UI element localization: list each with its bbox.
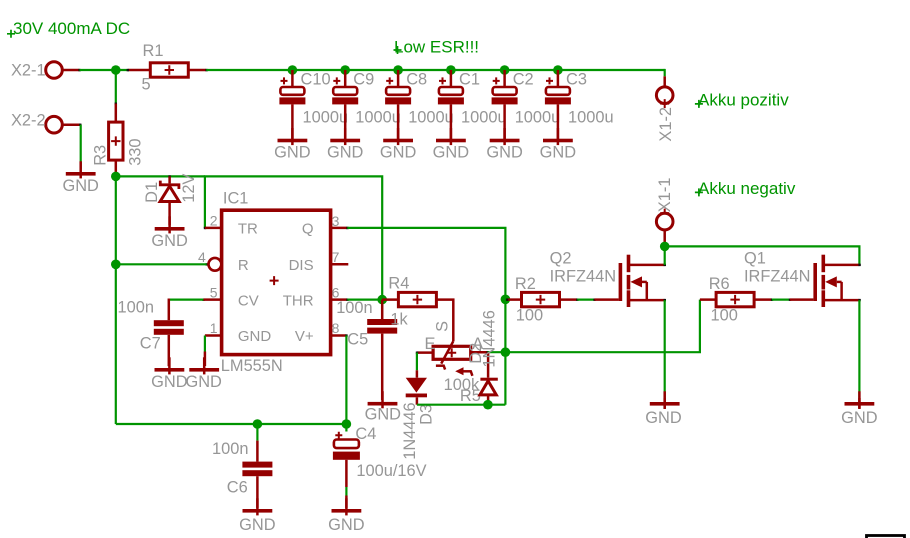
svg-text:Q2: Q2 [550,249,572,267]
wire long gate feed to R6 [505,300,700,353]
svg-text:C8: C8 [406,70,427,88]
wire bottom rail [116,423,347,425]
pin 8 (V+) [331,320,348,337]
svg-text:X2-2: X2-2 [11,112,46,130]
svg-text:C1: C1 [459,70,480,88]
svg-text:1000u: 1000u [461,109,507,127]
svg-text:C4: C4 [355,425,376,443]
wire Q node down to steering node [504,299,506,352]
svg-text:D1: D1 [143,182,161,203]
resistor R3 [92,103,145,177]
transistor Q2 IRFZ44N [550,249,666,307]
capacitor C9 [332,65,401,140]
svg-text:IC1: IC1 [223,190,249,208]
svg-text:R4: R4 [388,275,409,293]
wire X2-1 to R1 [80,69,128,71]
capacitor C3 [545,65,614,140]
wire X2-2 to ground [80,125,82,170]
svg-text:C6: C6 [227,479,248,497]
wire +30V rail [206,69,664,71]
wire CV to C7 [169,299,204,301]
wire R2 to Q2 gate [577,299,594,301]
svg-text:R3: R3 [92,145,110,166]
svg-text:D3: D3 [417,404,435,425]
svg-text:1N4446: 1N4446 [480,310,498,367]
wire rail down to R3 [115,70,117,104]
connector X2-2 [11,112,82,133]
svg-text:IRFZ44N: IRFZ44N [550,268,616,286]
svg-text:1000u: 1000u [568,109,614,127]
ground (Q2) [645,391,682,427]
wire left long vertical [115,176,117,424]
svg-text:Q: Q [302,221,314,238]
svg-text:GND: GND [274,144,311,162]
pin 3 (Q) [331,213,349,229]
node: junction Q/R2 [501,295,511,305]
svg-text:GND: GND [239,516,276,534]
svg-text:GND: GND [841,409,878,427]
svg-text:C9: C9 [353,70,374,88]
ground (C7) [151,357,188,391]
node: junction on left vertical at pin 4 [111,260,121,270]
ground (C9) [327,128,364,162]
node: junction at THR [377,295,387,305]
wire trimmer A pin [471,351,505,353]
svg-text:GND: GND [151,373,188,391]
wire trimmer E pin [416,352,434,371]
node: junction C6 [253,419,263,429]
svg-text:GND: GND [328,516,365,534]
svg-text:C7: C7 [140,334,161,352]
diode D1 (zener 12V) [143,174,198,226]
ground (D1) [151,216,188,250]
ground (C3) [540,128,577,162]
node: junction on +30V rail above R3 [111,65,121,75]
svg-text:6: 6 [332,284,340,300]
svg-text:C5: C5 [347,331,368,349]
pin 2 (TR) [204,213,222,230]
connector X2-1 [11,61,81,79]
wire drain bus X1-1 to Q1 [665,246,860,265]
transistor Q1 IRFZ44N [744,249,861,307]
diode D3 1N4446 [401,370,436,460]
ground (C4) [328,498,365,534]
svg-text:1000u: 1000u [355,109,401,127]
svg-text:GND: GND [62,177,99,195]
ground (C1) [433,128,470,162]
capacitor C1 [438,65,507,140]
svg-text:5: 5 [142,76,151,94]
svg-text:GND: GND [365,405,402,423]
ground (IC1 pin1) [185,352,222,391]
svg-text:C3: C3 [566,70,587,88]
label Low ESR!!! [394,37,480,56]
svg-text:100n: 100n [336,299,372,317]
svg-text:E: E [425,335,436,353]
svg-text:4: 4 [198,249,206,265]
node: junction below R3 [111,172,121,182]
svg-text:TR: TR [238,221,258,238]
node: junction C4 [342,419,352,429]
capacitor C7 [118,298,184,366]
svg-text:12V: 12V [180,174,198,203]
svg-text:GND: GND [433,144,470,162]
ground (C10) [274,128,311,162]
svg-text:30V 400mA DC: 30V 400mA DC [13,19,130,38]
node: junction X1-1 / drains [660,242,670,252]
svg-text:V+: V+ [295,328,314,345]
svg-text:100n: 100n [212,440,248,458]
ground (C8) [380,128,417,162]
node: junction D2 anode [483,400,493,410]
svg-text:IRFZ44N: IRFZ44N [744,268,810,286]
svg-text:C10: C10 [301,70,331,88]
wire Q2 source down to ground [664,300,666,398]
svg-text:C2: C2 [513,70,534,88]
capacitor C8 [385,65,454,140]
ground (Q1) [841,391,878,427]
svg-text:X2-1: X2-1 [11,61,46,79]
svg-text:Akku pozitiv: Akku pozitiv [698,90,789,109]
wire Q2 gate lead [593,299,618,301]
node: junction steering/A [501,347,511,357]
svg-text:GND: GND [540,144,577,162]
pin 1 (GND) [205,320,222,336]
svg-text:8: 8 [332,320,340,336]
svg-text:Q1: Q1 [744,249,766,267]
wire pin 1 to ground [204,336,206,352]
resistor R2 [506,275,579,324]
svg-text:GND: GND [327,144,364,162]
svg-text:330: 330 [127,138,145,165]
svg-text:GND: GND [486,144,523,162]
svg-text:7: 7 [332,249,340,265]
svg-text:DIS: DIS [289,257,314,274]
svg-text:100u/16V: 100u/16V [356,462,426,480]
label Akku negativ [695,179,796,198]
potentiometer R5 100k trimmer [425,321,484,405]
wire THR to junction [347,299,382,301]
wire R6 to Q1 gate [772,299,790,301]
wire Q1 gate lead [789,299,814,301]
ground (C5) [365,391,402,423]
svg-text:GND: GND [185,373,222,391]
svg-text:X1-1: X1-1 [656,178,674,213]
resistor R6 [700,275,773,324]
op-amp/timer IC1 LM555N body [221,190,331,376]
svg-text:LM555N: LM555N [221,357,283,375]
wire long vertical to pin 4 [116,263,207,265]
svg-text:1000u: 1000u [303,109,349,127]
svg-text:GND: GND [380,144,417,162]
pin 4 (R) with bubble [198,249,221,271]
svg-text:2: 2 [210,213,218,229]
connector X1-1 [656,178,674,247]
wire V+ down to bottom rail [345,336,347,425]
capacitor C10 [279,65,348,140]
svg-text:CV: CV [238,292,259,309]
capacitor C4 (100u/16V) [333,424,427,508]
svg-text:Low ESR!!!: Low ESR!!! [394,37,479,56]
svg-text:5: 5 [210,284,218,300]
wire junction to TR loop [116,175,205,177]
svg-text:THR: THR [283,292,314,309]
capacitor C2 [492,65,561,140]
svg-text:R: R [238,257,249,274]
svg-text:R6: R6 [709,275,730,293]
svg-text:3: 3 [332,213,340,229]
svg-text:1N4446: 1N4446 [401,402,419,459]
svg-text:Akku negativ: Akku negativ [698,179,796,198]
wire steering bottom net [417,352,506,405]
capacitor C6 [212,424,272,508]
label 30V 400mA DC [7,19,130,38]
svg-text:R2: R2 [515,275,536,293]
svg-text:X1-2: X1-2 [657,107,675,142]
resistor R1 [127,42,208,94]
diode D2 1N4446 [467,310,498,405]
ground (C2) [486,128,523,162]
wire Q1 source down to ground [858,300,860,398]
svg-text:100n: 100n [118,298,154,316]
svg-text:1: 1 [210,320,218,336]
pin 7 (DIS) [331,249,349,265]
pin 5 (CV) [202,284,221,301]
wire rail corner down to X1-2 [664,69,666,76]
svg-text:1k: 1k [390,310,408,328]
svg-text:GND: GND [238,328,272,345]
resistor R4 [382,275,453,342]
wire Q2 drain up to X1-1 node [664,246,666,265]
svg-text:GND: GND [151,232,188,250]
svg-text:R1: R1 [143,42,164,60]
connector X1-2 [656,76,675,141]
ground (X2-2) [62,161,99,195]
capacitor C5 [336,299,397,400]
wire TR-THR feedback loop [204,176,382,299]
label Akku pozitiv [695,90,789,109]
frame corner bottom right [867,536,905,538]
svg-text:1000u: 1000u [408,109,454,127]
svg-text:GND: GND [645,409,682,427]
wire Q output from pin 3 [347,228,505,299]
pin 6 (THR) [331,284,349,301]
svg-text:100: 100 [711,306,738,324]
svg-text:1000u: 1000u [515,109,561,127]
ground (C6) [239,498,276,534]
svg-text:S: S [434,321,452,332]
svg-text:100: 100 [516,306,543,324]
